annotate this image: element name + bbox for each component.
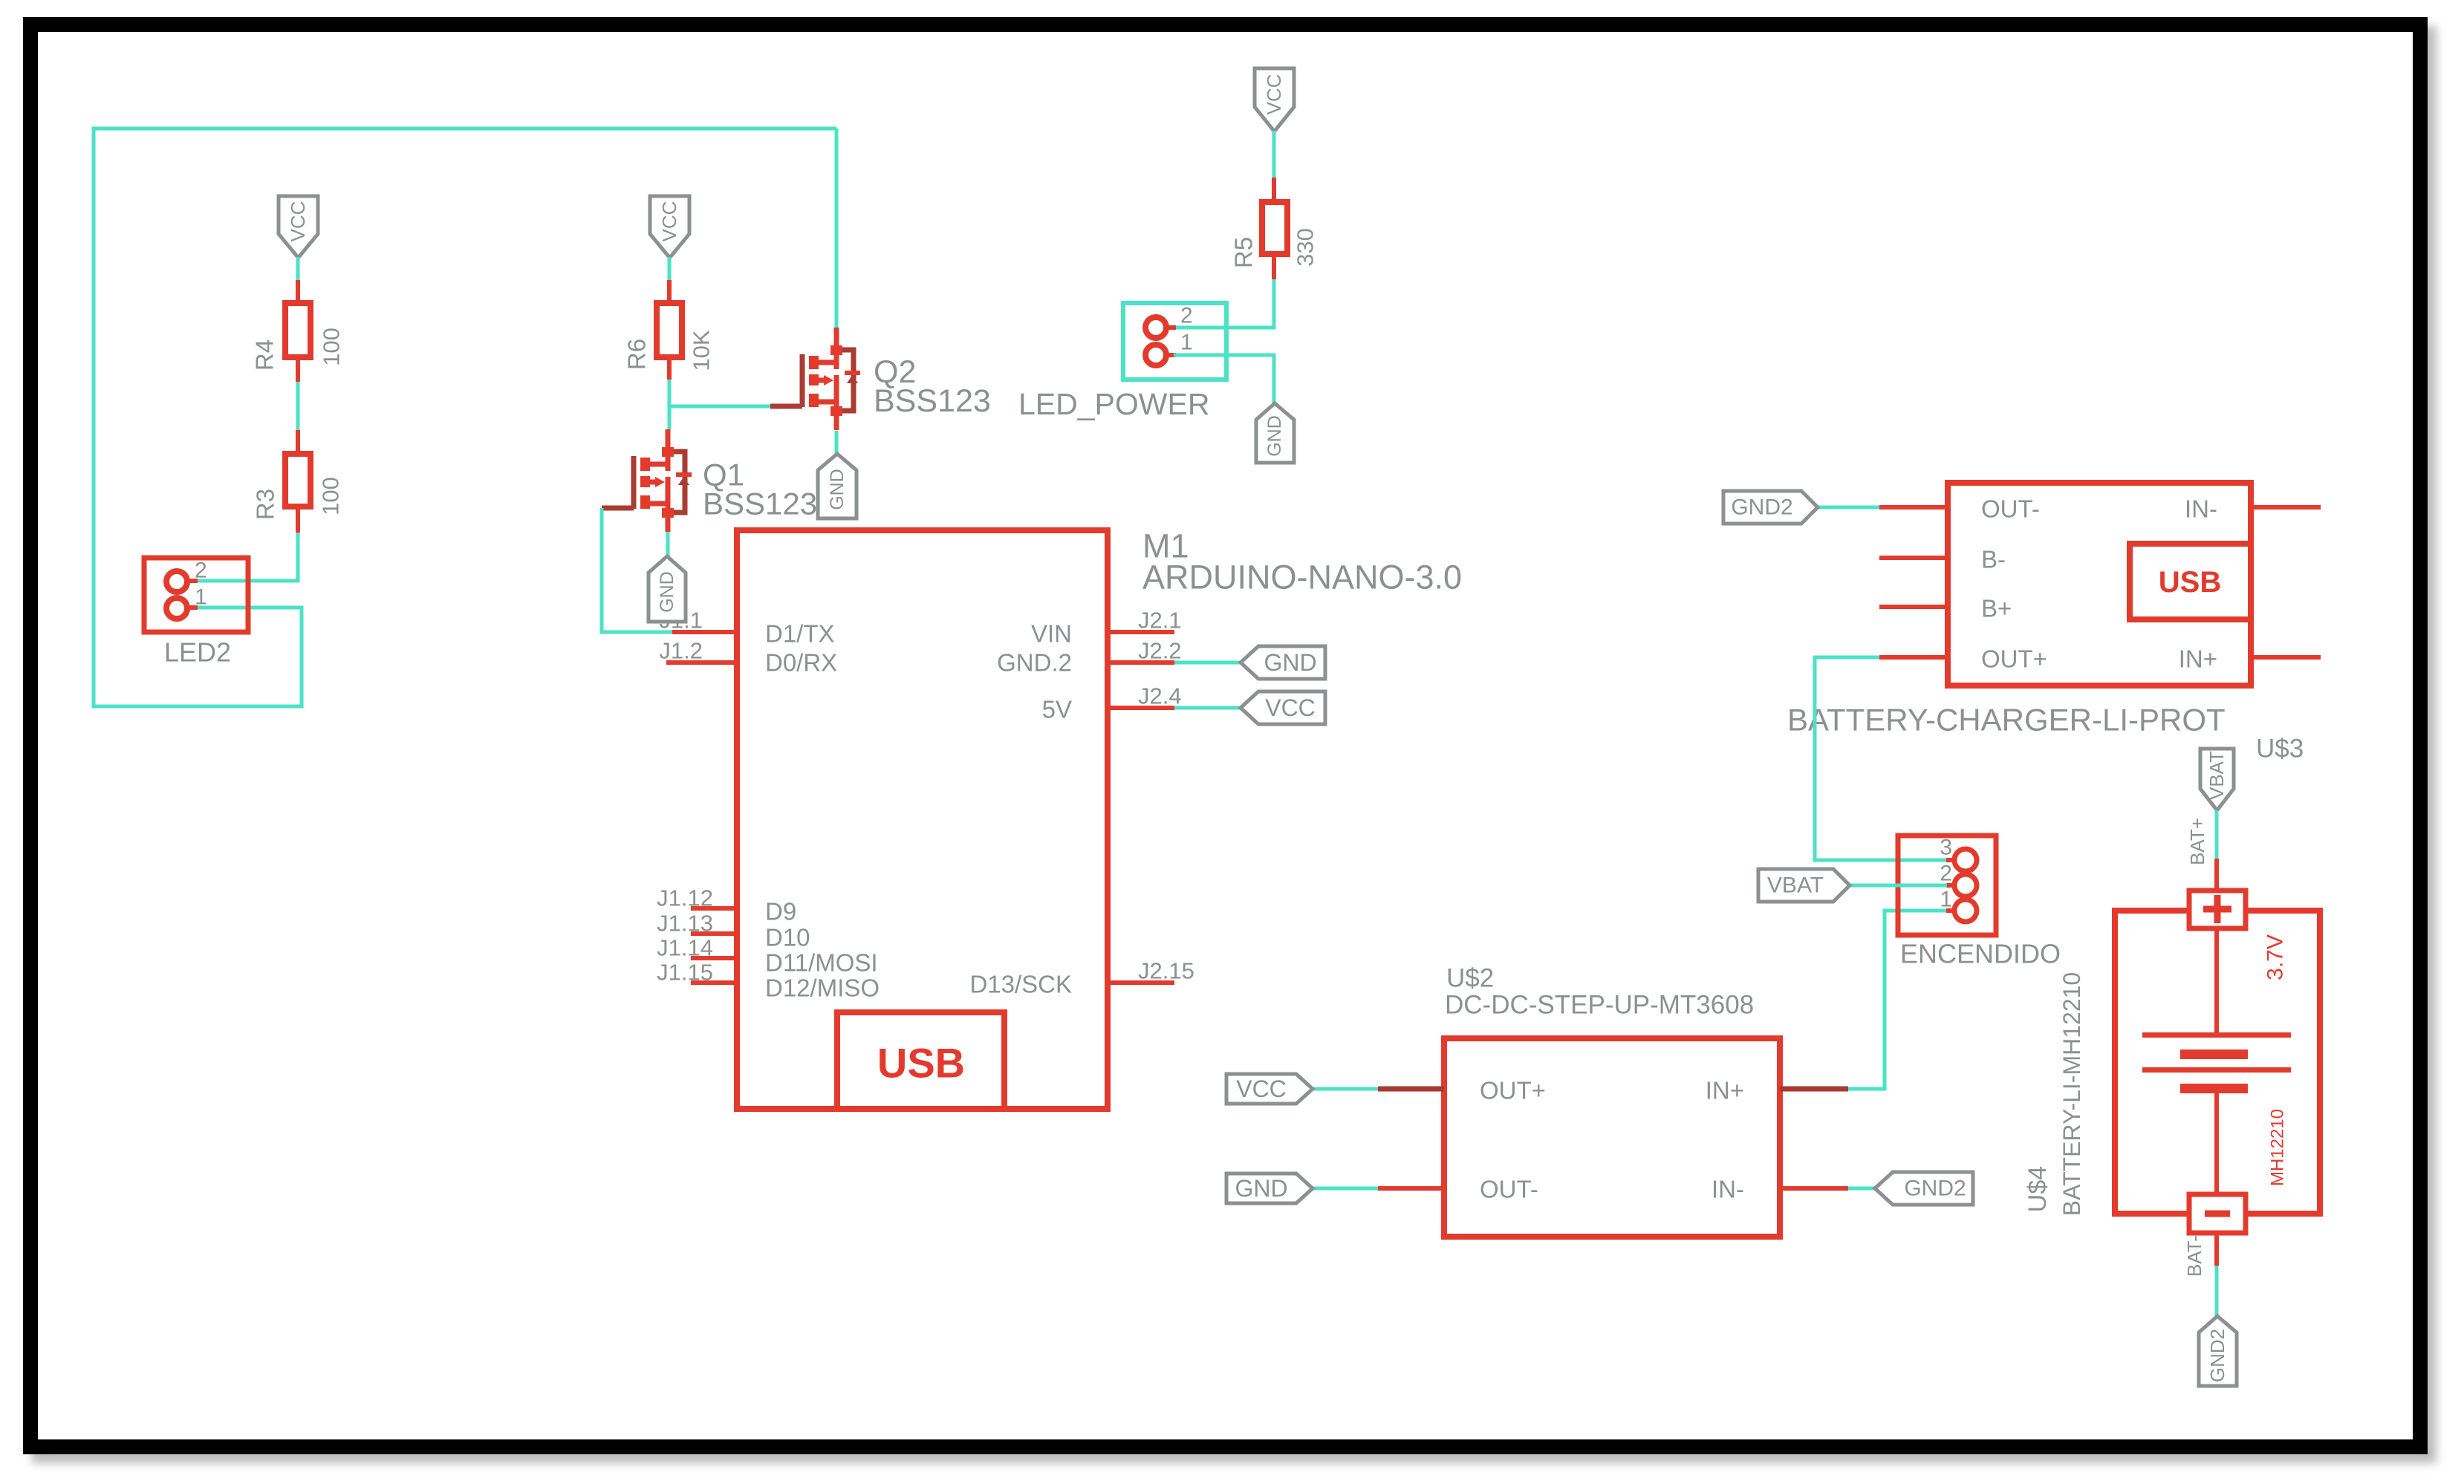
- svg-text:100: 100: [318, 477, 344, 515]
- wire VBAT to pin2: [1850, 884, 1947, 888]
- svg-text:LED2: LED2: [164, 637, 231, 668]
- supply flag VBAT (right-pointing): [1758, 869, 1850, 902]
- svg-text:BAT+: BAT+: [2186, 818, 2208, 865]
- wire R3 to LED2 pin2: [195, 533, 298, 581]
- ground GND (Q1): [648, 556, 686, 622]
- svg-text:B-: B-: [1981, 546, 2006, 573]
- svg-text:R4: R4: [251, 339, 279, 371]
- wire GND.2 to GND flag: [1174, 661, 1241, 665]
- pin B- stub: [1879, 556, 1948, 560]
- svg-text:J1.13: J1.13: [657, 911, 713, 937]
- svg-text:VCC: VCC: [1263, 74, 1285, 115]
- supply flag VCC (right-pointing): [1226, 1074, 1313, 1104]
- resistor R3 100: [252, 430, 344, 533]
- wire OUT- to GND flag: [1313, 1187, 1378, 1191]
- power VCC flag (R6): [650, 196, 689, 258]
- svg-text:VBAT: VBAT: [1767, 873, 1824, 898]
- pin J1.14 D11/MOSI: [657, 935, 737, 961]
- connector LED2: [144, 558, 248, 668]
- wire LED_POWER pin1 to GND: [1174, 355, 1274, 405]
- svg-text:3.7V: 3.7V: [2263, 934, 2288, 980]
- svg-text:D9: D9: [765, 898, 796, 925]
- power VCC flag (R4): [279, 196, 318, 258]
- wire Q2 source to GND: [835, 431, 839, 455]
- svg-text:VCC: VCC: [1265, 694, 1316, 721]
- pin IN- stub: [2251, 505, 2321, 510]
- svg-text:100: 100: [319, 328, 345, 366]
- svg-text:OUT-: OUT-: [1480, 1176, 1538, 1203]
- svg-text:IN-: IN-: [1712, 1176, 1744, 1203]
- pin J1.2 D0/RX: [659, 638, 737, 664]
- svg-text:IN+: IN+: [1706, 1077, 1744, 1104]
- pin B+ stub: [1879, 605, 1948, 609]
- svg-text:5V: 5V: [1042, 696, 1072, 723]
- svg-text:VIN: VIN: [1031, 620, 1072, 648]
- svg-text:VCC: VCC: [1236, 1075, 1287, 1102]
- svg-text:GND: GND: [1264, 649, 1316, 676]
- svg-text:BSS123: BSS123: [874, 383, 991, 419]
- wire OUT- to GND2 flag: [1818, 506, 1879, 510]
- svg-text:D10: D10: [765, 924, 810, 951]
- pin J2.15 D13/SCK: [1108, 958, 1194, 984]
- wire R4 to R3: [296, 382, 300, 432]
- wire VBAT to battery: [2215, 810, 2219, 860]
- svg-text:2: 2: [1940, 862, 1952, 886]
- ground GND (Q2): [818, 454, 856, 518]
- svg-text:J1.2: J1.2: [659, 638, 703, 664]
- svg-text:GND: GND: [827, 469, 848, 510]
- wire battery to GND2: [2215, 1266, 2219, 1318]
- svg-text:GND2: GND2: [2206, 1329, 2229, 1382]
- wire OUT+ to ENCENDIDO pin3: [1815, 657, 1947, 860]
- svg-text:VCC: VCC: [287, 201, 309, 242]
- svg-text:1: 1: [1180, 331, 1193, 355]
- ground GND (LED_POWER): [1256, 403, 1294, 463]
- svg-text:10K: 10K: [689, 330, 715, 371]
- pin J1.1 D1/TX: [659, 608, 737, 634]
- wire Q1 gate loop to J1.1: [602, 508, 672, 632]
- svg-text:BSS123: BSS123: [703, 486, 817, 521]
- wire VCC to R6: [668, 257, 672, 281]
- svg-text:R6: R6: [623, 339, 651, 370]
- svg-text:D12/MISO: D12/MISO: [765, 974, 880, 1002]
- supply flag GND (right-pointing): [1226, 1174, 1313, 1203]
- svg-text:3: 3: [1940, 836, 1952, 860]
- pin J1.12 D9: [657, 885, 737, 911]
- svg-text:OUT-: OUT-: [1981, 495, 2040, 523]
- wire VCC to R4: [296, 257, 300, 281]
- pin J2.1 VIN: [1108, 608, 1182, 634]
- svg-text:U$4: U$4: [2023, 1166, 2052, 1212]
- svg-text:USB: USB: [2159, 566, 2221, 599]
- svg-text:R3: R3: [252, 489, 279, 520]
- wire OUT+ to VCC flag: [1313, 1087, 1378, 1091]
- svg-text:VBAT: VBAT: [2205, 751, 2228, 800]
- pin OUT+ stub: [1378, 1087, 1444, 1092]
- svg-text:D0/RX: D0/RX: [765, 649, 837, 677]
- supply flag VCC (left-pointing): [1241, 691, 1325, 724]
- svg-text:IN-: IN-: [2185, 495, 2217, 523]
- USB box (M1): [837, 1012, 1004, 1109]
- svg-text:330: 330: [1293, 228, 1319, 267]
- svg-text:2: 2: [1180, 304, 1193, 328]
- resistor R5 330: [1230, 178, 1319, 279]
- svg-text:BAT-: BAT-: [2183, 1235, 2205, 1277]
- transistor Q1 BSS123: [602, 429, 817, 532]
- svg-text:ARDUINO-NANO-3.0: ARDUINO-NANO-3.0: [1142, 559, 1462, 596]
- module U$2 DC-DC-STEP-UP-MT3608 box: [1444, 1038, 1780, 1237]
- module M1 ARDUINO-NANO-3.0 box: [737, 530, 1108, 1109]
- wire R6 to Q1 gate node: [668, 380, 672, 429]
- module BATTERY-CHARGER-LI-PROT box: [1948, 483, 2251, 686]
- svg-text:LED_POWER: LED_POWER: [1018, 387, 1209, 421]
- svg-text:USB: USB: [877, 1040, 965, 1087]
- transistor Q2 BSS123: [770, 328, 991, 430]
- wire Q2 drain drop: [835, 128, 839, 328]
- svg-text:2: 2: [195, 559, 207, 583]
- pin OUT- stub: [1378, 1186, 1444, 1191]
- power VBAT flag: [2200, 749, 2234, 810]
- svg-text:ENCENDIDO: ENCENDIDO: [1900, 939, 2061, 969]
- pin OUT+ stub: [1879, 655, 1948, 660]
- wire R5 to LED_POWER pin2: [1174, 279, 1274, 328]
- supply flag GND2 (right-pointing): [1723, 491, 1818, 524]
- svg-text:GND: GND: [657, 571, 677, 613]
- svg-text:U$2: U$2: [1446, 964, 1494, 993]
- wire IN+ to ENCENDIDO pin1: [1848, 911, 1947, 1089]
- wire node to Q2 gate: [669, 405, 771, 409]
- wire VCC to R5: [1272, 131, 1276, 179]
- connector LED_POWER: [1018, 303, 1226, 421]
- svg-text:J1.12: J1.12: [657, 885, 713, 911]
- pin J1.13 D10: [657, 911, 737, 937]
- svg-text:J1.15: J1.15: [657, 960, 713, 986]
- svg-text:OUT+: OUT+: [1480, 1077, 1546, 1104]
- pin J1.15 D12/MISO: [657, 960, 737, 986]
- svg-text:J2.1: J2.1: [1138, 608, 1182, 634]
- svg-text:IN+: IN+: [2179, 645, 2217, 673]
- pin OUT- stub: [1879, 505, 1948, 510]
- svg-text:J2.2: J2.2: [1138, 638, 1182, 664]
- svg-text:U$3: U$3: [2256, 735, 2304, 764]
- svg-text:BATTERY-LI-MH12210: BATTERY-LI-MH12210: [2058, 972, 2085, 1216]
- supply flag GND2 (left-pointing): [1875, 1172, 1973, 1205]
- svg-text:DC-DC-STEP-UP-MT3608: DC-DC-STEP-UP-MT3608: [1445, 991, 1754, 1020]
- svg-text:B+: B+: [1981, 595, 2012, 622]
- svg-text:OUT+: OUT+: [1981, 645, 2047, 673]
- resistor R4 100: [251, 280, 345, 382]
- svg-text:1: 1: [1940, 888, 1952, 912]
- USB box (charger): [2130, 544, 2251, 619]
- power VCC flag (R5): [1255, 68, 1294, 131]
- svg-text:D13/SCK: D13/SCK: [969, 971, 1072, 998]
- pin J2.4 5V: [1108, 683, 1182, 709]
- svg-text:MH12210: MH12210: [2268, 1109, 2288, 1186]
- svg-text:GND: GND: [1264, 415, 1285, 457]
- resistor R6 10K: [623, 280, 715, 380]
- wire 5V to VCC flag: [1174, 706, 1241, 710]
- pin IN- stub: [1780, 1186, 1848, 1191]
- svg-text:VCC: VCC: [658, 201, 680, 242]
- svg-text:D11/MOSI: D11/MOSI: [765, 949, 878, 977]
- wire net LED loop top/left/bottom: [94, 128, 836, 706]
- ground GND2 (battery): [2199, 1316, 2237, 1386]
- svg-text:GND.2: GND.2: [997, 649, 1072, 677]
- svg-text:R5: R5: [1230, 237, 1258, 268]
- svg-text:J2.4: J2.4: [1138, 683, 1182, 709]
- battery U$4 BATTERY-LI-MH12210: [2023, 859, 2320, 1266]
- svg-text:GND2: GND2: [1731, 495, 1792, 520]
- svg-text:D1/TX: D1/TX: [765, 620, 835, 648]
- wire IN- to GND2 flag: [1848, 1187, 1875, 1191]
- svg-text:GND2: GND2: [1904, 1177, 1966, 1201]
- svg-text:J2.15: J2.15: [1138, 958, 1194, 984]
- svg-text:BATTERY-CHARGER-LI-PROT: BATTERY-CHARGER-LI-PROT: [1787, 703, 2226, 738]
- pin IN+ stub: [2251, 655, 2321, 660]
- wire Q1 source to GND: [666, 532, 670, 557]
- connector ENCENDIDO: [1898, 836, 2061, 969]
- svg-text:1: 1: [195, 585, 207, 610]
- svg-text:GND: GND: [1235, 1175, 1287, 1202]
- pin IN+ stub: [1780, 1087, 1848, 1092]
- svg-text:J1.14: J1.14: [657, 935, 713, 961]
- supply flag GND (left-pointing): [1241, 646, 1325, 679]
- pin J2.2 GND.2: [1108, 638, 1182, 664]
